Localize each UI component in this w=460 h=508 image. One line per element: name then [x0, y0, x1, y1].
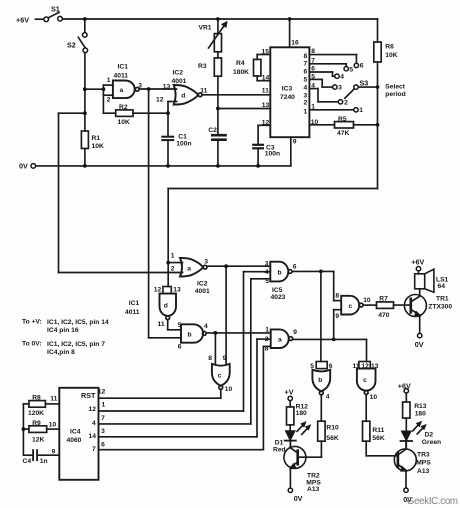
svg-text:8: 8	[335, 293, 339, 300]
svg-text:d: d	[164, 302, 168, 309]
svg-text:12: 12	[89, 406, 97, 413]
svg-text:R10: R10	[326, 424, 339, 431]
svg-text:12: 12	[98, 389, 106, 396]
svg-text:14: 14	[262, 74, 270, 81]
svg-text:IC1, IC2, IC5, pin 7: IC1, IC2, IC5, pin 7	[47, 341, 105, 348]
svg-text:R3: R3	[198, 63, 207, 70]
svg-text:1: 1	[304, 108, 308, 115]
svg-text:+6V: +6V	[16, 16, 29, 25]
svg-text:16: 16	[291, 40, 299, 47]
svg-text:11: 11	[158, 321, 165, 328]
svg-text:C1: C1	[178, 134, 187, 141]
svg-text:5: 5	[304, 76, 308, 83]
svg-text:Red: Red	[273, 446, 286, 453]
svg-text:120K: 120K	[28, 410, 44, 417]
svg-text:11: 11	[353, 363, 360, 370]
svg-text:4023: 4023	[271, 294, 286, 301]
svg-text:180K: 180K	[233, 69, 249, 76]
svg-text:+6V: +6V	[398, 381, 411, 390]
svg-text:3: 3	[265, 261, 269, 268]
svg-text:6: 6	[329, 363, 333, 370]
svg-text:c: c	[218, 372, 222, 379]
svg-text:10: 10	[225, 386, 233, 393]
svg-text:10: 10	[311, 119, 319, 126]
svg-text:b: b	[318, 377, 322, 384]
svg-text:11: 11	[262, 87, 269, 94]
svg-text:15: 15	[262, 48, 270, 55]
svg-text:4001: 4001	[172, 78, 187, 85]
svg-text:4011: 4011	[125, 309, 140, 316]
svg-text:IC4 pin 16: IC4 pin 16	[47, 327, 79, 334]
svg-text:c: c	[363, 377, 367, 384]
svg-text:9: 9	[293, 138, 297, 145]
svg-text:S3: S3	[360, 79, 369, 88]
svg-text:1: 1	[102, 401, 106, 408]
svg-text:Green: Green	[422, 439, 441, 446]
svg-text:A13: A13	[307, 486, 320, 493]
svg-text:13: 13	[163, 83, 171, 90]
svg-text:1: 1	[107, 77, 111, 84]
svg-text:11: 11	[50, 396, 57, 403]
svg-text:3: 3	[304, 92, 308, 99]
svg-text:4: 4	[326, 394, 330, 401]
svg-text:IC3: IC3	[282, 85, 293, 92]
svg-text:180: 180	[296, 410, 307, 417]
svg-text:a: a	[187, 265, 191, 272]
svg-text:c: c	[349, 303, 353, 310]
svg-text:10: 10	[370, 394, 378, 401]
svg-text:2: 2	[265, 336, 269, 343]
svg-text:13: 13	[371, 363, 379, 370]
svg-text:10K: 10K	[118, 119, 130, 126]
svg-text:C4: C4	[23, 458, 32, 465]
svg-text:4060: 4060	[67, 437, 82, 444]
svg-text:10: 10	[363, 297, 371, 304]
svg-text:6: 6	[304, 68, 308, 75]
svg-text:+V: +V	[285, 388, 294, 397]
svg-text:IC2: IC2	[197, 280, 208, 287]
svg-text:9: 9	[293, 329, 297, 336]
svg-text:12: 12	[154, 287, 162, 294]
svg-text:2: 2	[344, 99, 348, 106]
svg-text:RST: RST	[81, 391, 96, 400]
svg-text:To 0V:: To 0V:	[22, 341, 42, 348]
svg-text:TR3: TR3	[417, 452, 430, 459]
svg-text:8: 8	[208, 355, 212, 362]
svg-text:7: 7	[304, 61, 308, 68]
svg-text:+6V: +6V	[411, 258, 424, 267]
svg-text:8: 8	[311, 48, 315, 55]
svg-text:S2: S2	[67, 41, 76, 50]
svg-text:TR2: TR2	[307, 472, 320, 479]
svg-text:3: 3	[101, 428, 105, 435]
svg-text:8: 8	[304, 53, 308, 60]
svg-text:1: 1	[171, 253, 175, 260]
svg-text:d: d	[181, 93, 185, 100]
svg-text:7240: 7240	[280, 94, 295, 101]
svg-text:6: 6	[360, 63, 364, 70]
svg-text:10K: 10K	[385, 52, 397, 59]
svg-text:a: a	[120, 87, 124, 94]
svg-text:3: 3	[138, 83, 142, 90]
svg-text:R2: R2	[119, 104, 128, 111]
svg-text:180: 180	[415, 410, 426, 417]
svg-text:12: 12	[262, 119, 270, 126]
svg-text:14: 14	[89, 433, 97, 440]
svg-text:R8: R8	[32, 394, 41, 401]
svg-text:2: 2	[171, 266, 175, 273]
svg-text:1: 1	[359, 107, 363, 114]
svg-text:12: 12	[361, 363, 369, 370]
svg-text:C2: C2	[208, 127, 217, 134]
svg-text:1: 1	[311, 104, 315, 111]
svg-text:4: 4	[92, 420, 96, 427]
svg-text:MPS: MPS	[416, 460, 431, 467]
svg-text:IC4,pin 8: IC4,pin 8	[47, 349, 75, 356]
svg-text:9: 9	[223, 355, 227, 362]
svg-text:R5: R5	[338, 116, 347, 123]
svg-text:Select: Select	[385, 84, 405, 91]
svg-text:2: 2	[304, 99, 308, 106]
svg-text:R4: R4	[236, 60, 245, 67]
svg-text:4011: 4011	[114, 72, 129, 79]
svg-text:4: 4	[304, 84, 308, 91]
svg-text:6: 6	[101, 441, 105, 448]
svg-text:a: a	[278, 337, 282, 344]
svg-text:4001: 4001	[195, 288, 210, 295]
svg-text:R11: R11	[372, 427, 384, 434]
svg-text:b: b	[188, 331, 192, 338]
svg-text:S1: S1	[51, 5, 60, 14]
svg-text:12K: 12K	[32, 437, 44, 444]
svg-text:IC4: IC4	[70, 429, 81, 436]
svg-text:3: 3	[204, 259, 208, 266]
svg-text:100n: 100n	[265, 151, 280, 158]
svg-text:period: period	[385, 91, 405, 98]
svg-text:7: 7	[101, 415, 105, 422]
svg-text:b: b	[278, 270, 282, 277]
svg-text:IC1, IC2, IC5, pin 14: IC1, IC2, IC5, pin 14	[47, 319, 109, 326]
svg-text:1n: 1n	[40, 458, 48, 465]
svg-text:1: 1	[265, 327, 269, 334]
svg-text:5: 5	[310, 363, 314, 370]
svg-text:4: 4	[265, 269, 269, 276]
svg-text:47K: 47K	[337, 130, 349, 137]
svg-text:D2: D2	[425, 431, 434, 438]
svg-text:0V: 0V	[19, 162, 28, 171]
svg-text:2: 2	[107, 97, 111, 104]
svg-text:VR1: VR1	[199, 25, 212, 32]
svg-text:GeekIC.com: GeekIC.com	[407, 496, 458, 507]
svg-text:12: 12	[156, 96, 164, 103]
svg-text:9: 9	[52, 448, 56, 455]
svg-text:IC2: IC2	[173, 70, 184, 77]
svg-text:IC1: IC1	[118, 64, 129, 71]
svg-text:13: 13	[262, 102, 270, 109]
svg-text:7: 7	[92, 446, 96, 453]
svg-text:To +V:: To +V:	[22, 319, 42, 326]
svg-text:3: 3	[338, 84, 342, 91]
svg-text:R1: R1	[92, 135, 101, 142]
svg-text:R7: R7	[379, 295, 388, 302]
svg-text:6: 6	[178, 343, 182, 350]
svg-text:0V: 0V	[294, 494, 303, 503]
svg-text:56K: 56K	[372, 435, 384, 442]
svg-text:0V: 0V	[415, 340, 424, 349]
svg-text:4: 4	[340, 73, 344, 80]
svg-text:TR1: TR1	[436, 296, 449, 303]
svg-text:R13: R13	[414, 403, 427, 410]
svg-text:11: 11	[200, 87, 207, 94]
svg-text:9: 9	[335, 313, 339, 320]
svg-text:13: 13	[173, 287, 181, 294]
svg-text:A13: A13	[417, 468, 430, 475]
svg-text:470: 470	[378, 312, 389, 319]
svg-text:5: 5	[349, 66, 353, 73]
svg-text:8: 8	[265, 346, 269, 353]
svg-text:5: 5	[311, 73, 315, 80]
svg-text:5: 5	[178, 322, 182, 329]
svg-text:56K: 56K	[326, 435, 338, 442]
svg-text:IC1: IC1	[129, 300, 140, 307]
svg-text:5: 5	[265, 278, 269, 285]
svg-text:ZTX300: ZTX300	[428, 304, 452, 311]
svg-text:R9: R9	[32, 420, 41, 427]
svg-text:R6: R6	[385, 44, 394, 51]
svg-text:7: 7	[311, 57, 315, 64]
svg-text:6: 6	[293, 264, 297, 271]
svg-text:6: 6	[311, 66, 315, 73]
svg-text:4: 4	[204, 323, 208, 330]
svg-text:100n: 100n	[176, 141, 191, 148]
svg-text:10: 10	[49, 421, 57, 428]
svg-text:10K: 10K	[92, 143, 104, 150]
svg-text:64: 64	[438, 283, 446, 290]
svg-text:4: 4	[311, 82, 315, 89]
